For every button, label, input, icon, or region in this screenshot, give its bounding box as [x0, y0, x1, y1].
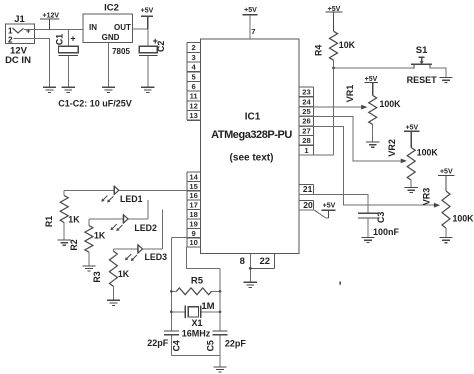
svg-text:16MHz: 16MHz	[182, 328, 211, 338]
svg-text:+5V: +5V	[323, 203, 336, 210]
node crystal left	[170, 311, 173, 314]
svg-text:DC IN: DC IN	[5, 55, 31, 66]
ground R2	[82, 266, 95, 271]
wire pin21 to C3	[299, 195, 368, 214]
svg-text:25: 25	[302, 107, 311, 116]
svg-text:18: 18	[189, 210, 197, 219]
svg-text:R2: R2	[69, 239, 79, 250]
svg-text:6: 6	[191, 82, 195, 91]
svg-text:C4: C4	[172, 340, 182, 351]
LED LED1	[101, 186, 142, 204]
potentiometer VR3	[422, 188, 474, 238]
power +5V at VR2	[404, 125, 420, 148]
svg-text:VR3: VR3	[422, 188, 432, 206]
wire R4 to node	[333, 60, 335, 68]
svg-text:15: 15	[189, 182, 198, 191]
ground VR2	[405, 188, 418, 193]
svg-text:C2: C2	[156, 41, 166, 52]
ground S1	[440, 78, 453, 83]
pin 22 box	[250, 254, 274, 269]
svg-text:VR2: VR2	[387, 139, 397, 157]
LED LED2	[111, 214, 157, 232]
IC1 left lower pin boxes 14,15,16,17,18,19,9,10	[187, 172, 201, 247]
svg-text:27: 27	[302, 126, 310, 135]
capacitor C5	[206, 331, 247, 351]
wire pin24 to VR1 wiper	[299, 106, 361, 108]
svg-text:100K: 100K	[453, 214, 474, 224]
power +5V at pin20	[321, 203, 335, 218]
node R5 right	[219, 290, 222, 293]
wire pin9 to crystal left rail	[171, 238, 187, 356]
svg-text:22: 22	[260, 256, 271, 267]
potentiometer VR1	[345, 85, 401, 142]
ground C3	[361, 238, 374, 243]
svg-text:9: 9	[191, 229, 195, 238]
svg-text:C1-C2: 10 uF/25V: C1-C2: 10 uF/25V	[58, 99, 132, 109]
wire pin25 to VR2 wiper	[299, 117, 401, 161]
svg-text:IC1: IC1	[245, 111, 261, 122]
svg-text:+: +	[26, 27, 31, 36]
power +12V	[40, 12, 59, 29]
capacitor C4	[147, 331, 181, 351]
svg-text:IN: IN	[89, 23, 97, 32]
LED LED3	[125, 244, 167, 262]
svg-text:19: 19	[189, 219, 197, 228]
svg-text:R5: R5	[191, 275, 204, 286]
svg-text:10: 10	[189, 238, 197, 247]
svg-text:X1: X1	[191, 318, 202, 328]
IC1 right pin boxes 23,24,25,26,27,28,1	[299, 87, 314, 155]
resistor R3	[92, 249, 130, 300]
capacitor C3	[358, 212, 400, 238]
wire pin15 row to LED1	[64, 189, 187, 191]
svg-text:28: 28	[302, 136, 310, 145]
svg-text:R1: R1	[44, 216, 54, 227]
wire reset node to S1	[334, 67, 414, 69]
power +5V at VR3	[438, 169, 455, 191]
svg-text:LED2: LED2	[134, 223, 157, 233]
ground C1	[62, 87, 75, 92]
svg-text:RESET: RESET	[407, 75, 438, 85]
ground C2	[141, 87, 154, 92]
power +5V at pin 7	[243, 7, 258, 15]
svg-text:24: 24	[302, 97, 311, 106]
svg-text:IC2: IC2	[104, 2, 119, 13]
resistor R5	[171, 275, 220, 312]
svg-text:VR1: VR1	[345, 85, 355, 103]
svg-text:LED3: LED3	[145, 252, 168, 262]
svg-text:(see text): (see text)	[230, 152, 274, 163]
svg-text:16: 16	[189, 191, 197, 200]
connector J1	[5, 14, 34, 66]
svg-text:J1: J1	[14, 14, 25, 25]
node R5 left	[170, 290, 173, 293]
svg-text:26: 26	[302, 117, 310, 126]
svg-text:OUT: OUT	[114, 23, 131, 32]
wire pin20 to +5V flag	[299, 210, 329, 218]
node pin8/22 junction	[249, 267, 252, 270]
svg-text:C3: C3	[376, 212, 386, 223]
svg-text:23: 23	[302, 88, 310, 97]
svg-text:2: 2	[8, 36, 13, 45]
svg-text:22pF: 22pF	[147, 338, 169, 348]
node reset junction	[332, 67, 335, 70]
potentiometer VR2	[387, 139, 439, 187]
capacitor C2	[139, 29, 166, 87]
speck artifact	[339, 282, 341, 285]
crystal X1	[171, 306, 220, 339]
svg-text:ATMega328P-PU: ATMega328P-PU	[211, 129, 292, 141]
svg-text:22pF: 22pF	[225, 338, 247, 348]
wire pin10 to crystal right rail	[187, 247, 220, 355]
svg-text:+5V: +5V	[141, 7, 154, 14]
IC1 left upper pin boxes 2,3,4,5,6,11,12,13	[187, 43, 201, 121]
pin 8 wire to ground	[249, 254, 251, 283]
wire IC2 OUT to +5V node	[132, 28, 147, 30]
ground pin8/22	[244, 282, 257, 287]
svg-text:100K: 100K	[417, 147, 439, 157]
wire pin16 row to LED2	[89, 200, 148, 219]
svg-text:C1: C1	[55, 34, 65, 45]
power +5V at R4	[326, 6, 343, 31]
wire S1 to ground	[430, 68, 446, 77]
resistor R1	[44, 190, 80, 240]
svg-text:7: 7	[251, 27, 255, 36]
svg-text:GND: GND	[102, 33, 120, 42]
svg-text:10K: 10K	[339, 40, 356, 50]
wire pin26 to VR3 wiper	[299, 126, 434, 205]
svg-text:+5V: +5V	[440, 169, 453, 176]
svg-text:1K: 1K	[68, 215, 80, 225]
ground crystal	[213, 367, 226, 372]
svg-text:21: 21	[303, 184, 313, 194]
switch S1	[407, 45, 438, 85]
wire crystal bottom rail	[171, 355, 220, 366]
svg-text:1K: 1K	[118, 269, 130, 279]
power +5V at VR1	[364, 76, 378, 96]
svg-text:2: 2	[191, 43, 195, 52]
ground R1	[58, 240, 71, 245]
regulator IC2 7805	[83, 2, 132, 56]
svg-text:+: +	[70, 34, 75, 44]
svg-text:20: 20	[303, 200, 313, 210]
IC1 right pin boxes 21,20	[299, 184, 314, 210]
wire IC2 GND to ground	[108, 43, 110, 87]
node crystal right	[219, 311, 222, 314]
ground R3	[107, 300, 120, 305]
svg-text:+5V: +5V	[244, 7, 257, 14]
svg-text:1M: 1M	[201, 301, 214, 312]
capacitor C1	[55, 29, 79, 87]
power +5V at IC2 OUT	[141, 7, 154, 28]
svg-text:13: 13	[189, 111, 197, 120]
svg-text:11: 11	[190, 92, 199, 101]
ground VR3	[439, 238, 452, 243]
wire J1 pin2 to ground	[14, 38, 50, 87]
wire J1 pin1 to IC2 IN	[24, 28, 83, 30]
resistor R2	[69, 219, 106, 266]
svg-text:R4: R4	[314, 45, 324, 56]
svg-text:14: 14	[189, 172, 198, 181]
wire pin17 row to LED3	[113, 210, 162, 249]
resistor R4	[314, 31, 356, 60]
ground VR1	[366, 142, 379, 147]
svg-text:3: 3	[191, 53, 195, 62]
wire node to pin 1	[299, 68, 334, 155]
svg-text:100nF: 100nF	[373, 227, 400, 237]
svg-text:LED1: LED1	[120, 194, 143, 204]
ground J1 pin2	[43, 87, 56, 92]
svg-text:8: 8	[240, 256, 245, 267]
svg-text:7805: 7805	[112, 47, 130, 56]
svg-text:C5: C5	[206, 340, 216, 351]
wire pin 7	[249, 15, 251, 39]
svg-text:+12V: +12V	[43, 12, 60, 19]
op IC1 ATMega328P-PU body	[201, 39, 300, 254]
svg-text:+5V: +5V	[365, 76, 378, 83]
svg-text:100K: 100K	[380, 99, 402, 109]
svg-text:+5V: +5V	[406, 125, 419, 132]
svg-text:1K: 1K	[94, 231, 106, 241]
svg-text:R3: R3	[92, 271, 102, 282]
svg-text:S1: S1	[416, 45, 428, 56]
svg-text:17: 17	[189, 201, 197, 210]
ground IC2	[102, 87, 115, 92]
svg-text:1: 1	[8, 26, 13, 35]
svg-text:12: 12	[189, 101, 197, 110]
